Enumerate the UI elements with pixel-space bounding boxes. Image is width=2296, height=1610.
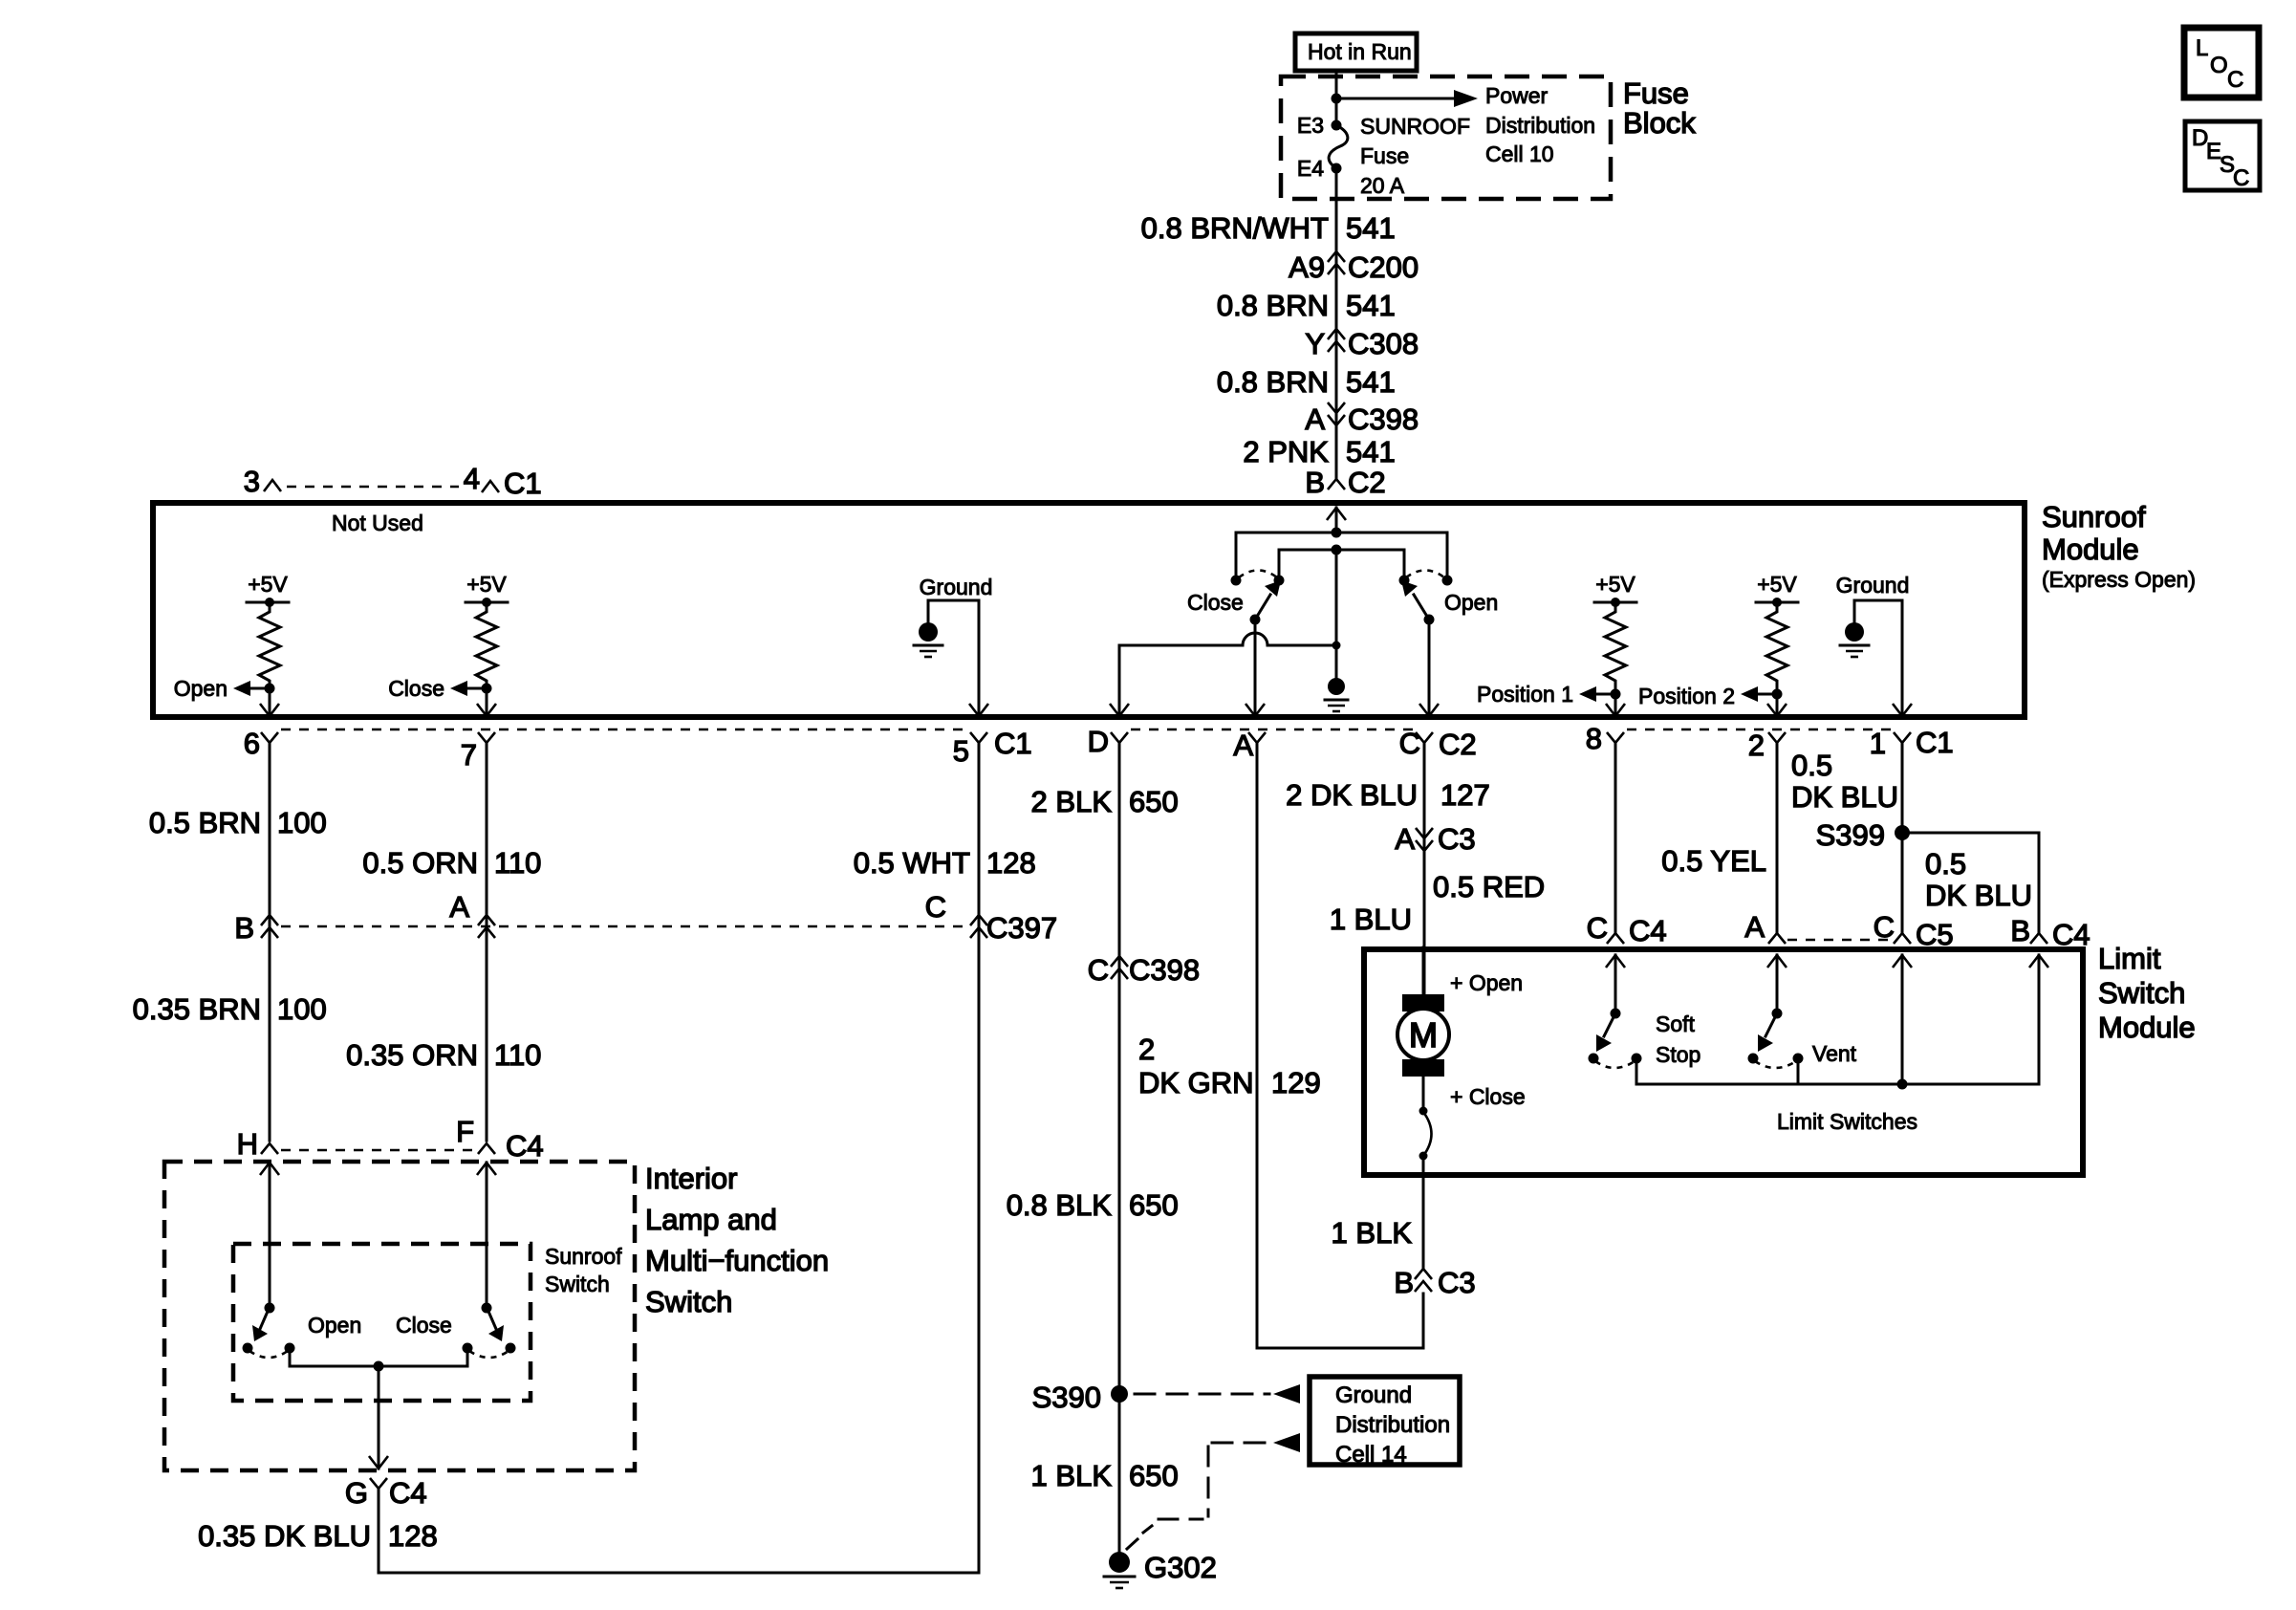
svg-text:E4: E4	[1297, 156, 1324, 181]
svg-text:0.8 BRN: 0.8 BRN	[1217, 365, 1329, 399]
wire pin A down (close feed to motor)	[1257, 743, 1423, 1348]
resistor R-close	[476, 602, 497, 687]
wire to pin 6	[260, 688, 279, 716]
connector C2 dashed line	[1131, 729, 1414, 731]
wire label 0.5 DK BLU (upper)	[1791, 749, 1898, 814]
svg-text:C5: C5	[1916, 918, 1954, 951]
connector C308 pin Y	[1305, 327, 1419, 360]
open contact travel arc	[249, 1351, 288, 1358]
svg-text:7: 7	[461, 738, 477, 772]
svg-text:Open: Open	[1444, 590, 1498, 615]
svg-text:Switch: Switch	[545, 1272, 610, 1296]
pin 4 (not used), connector C1	[464, 462, 542, 500]
svg-text:0.5: 0.5	[1791, 749, 1832, 782]
arrow to Power Distribution Cell 10	[1336, 83, 1595, 166]
svg-text:DK GRN: DK GRN	[1138, 1066, 1254, 1099]
svg-text:C4: C4	[506, 1129, 544, 1163]
wire pin 1 down	[1901, 743, 1904, 933]
wire to pin G	[369, 1366, 388, 1469]
connector C397 pin C	[925, 890, 1058, 945]
node relay ground junction	[1332, 642, 1341, 650]
svg-text:A9: A9	[1289, 250, 1325, 284]
node close-sense junction	[482, 684, 492, 694]
Limit Switch Module label	[2098, 942, 2196, 1044]
wire label 0.8 BRN/WHT 541	[1141, 211, 1396, 245]
wire ground to pin 5	[928, 600, 988, 716]
svg-text:0.8 BRN: 0.8 BRN	[1217, 289, 1329, 322]
connector C3 pin B	[1394, 1266, 1475, 1299]
svg-text:C: C	[1874, 910, 1895, 944]
svg-text:Interior: Interior	[645, 1162, 737, 1195]
svg-text:C1: C1	[504, 467, 542, 500]
switch contacts	[243, 1343, 253, 1354]
svg-text:Fuse: Fuse	[1360, 143, 1409, 168]
node switch output junction	[374, 1361, 384, 1372]
svg-text:Hot in Run: Hot in Run	[1308, 39, 1412, 64]
svg-text:0.35 DK BLU: 0.35 DK BLU	[198, 1519, 371, 1553]
Fuse Block dashed box	[1281, 76, 1611, 199]
svg-text:Open: Open	[174, 676, 227, 701]
Open output arrow	[174, 676, 270, 701]
svg-text:H: H	[237, 1127, 258, 1161]
resistor R-pos2	[1766, 602, 1787, 689]
svg-text:C398: C398	[1348, 402, 1419, 436]
+5V supply (open sense)	[247, 572, 289, 607]
svg-text:Cell 14: Cell 14	[1335, 1442, 1407, 1468]
pin 2 connector	[1748, 729, 1786, 762]
svg-text:+ Close: + Close	[1450, 1084, 1526, 1109]
pin E3	[1297, 113, 1342, 138]
connector C398 pin A	[1305, 402, 1419, 436]
vent switch blade	[1758, 1009, 1783, 1053]
wire pin C down (open feed to motor)	[1423, 743, 1426, 998]
wire C3-B to motor	[1422, 1175, 1425, 1269]
svg-text:0.5 BRN: 0.5 BRN	[149, 806, 261, 839]
connector C2 pin B	[1305, 466, 1385, 499]
svg-text:Open: Open	[308, 1313, 361, 1338]
contact close-NO	[1274, 576, 1285, 586]
svg-text:Stop: Stop	[1656, 1042, 1700, 1067]
svg-text:0.8 BLK: 0.8 BLK	[1007, 1188, 1113, 1222]
contact open-NO	[1399, 576, 1410, 586]
Interior Lamp switch label	[645, 1162, 829, 1318]
internal ground (right)	[1836, 573, 1910, 657]
wire to pin 2	[1767, 694, 1787, 716]
Limit Switch Module box	[1364, 949, 2083, 1175]
svg-text:Sunroof: Sunroof	[545, 1244, 622, 1269]
wire pin 8 down	[1614, 743, 1617, 933]
svg-text:Close: Close	[1187, 590, 1244, 615]
svg-text:C4: C4	[2052, 918, 2090, 951]
node relay feed junction 1	[1332, 528, 1342, 538]
pin 3 (not used)	[244, 465, 281, 498]
svg-text:M: M	[1409, 1015, 1438, 1055]
pin 5 connector C1	[953, 727, 1032, 768]
connector C3 pin A	[1395, 822, 1475, 856]
svg-text:+5V: +5V	[1595, 572, 1635, 597]
connector C398 pin C	[1088, 953, 1201, 987]
close switch entry arrow	[477, 1163, 496, 1308]
wire limit switch bus	[1636, 1058, 2039, 1084]
dashed line pins 3-4	[287, 486, 459, 489]
connector C1 dashed line (left)	[281, 729, 967, 731]
svg-text:A: A	[1305, 402, 1325, 436]
svg-text:Vent: Vent	[1812, 1041, 1857, 1066]
wire label 0.5 ORN 110	[362, 846, 541, 880]
svg-text:129: 129	[1271, 1066, 1321, 1099]
vent switch entry arrow	[1767, 955, 1787, 1013]
connector C397 dashed line	[281, 925, 967, 928]
node relay feed junction 2	[1332, 545, 1342, 555]
Sunroof Switch dashed box	[233, 1244, 531, 1401]
svg-text:541: 541	[1346, 211, 1396, 245]
wire C5-C limit sense	[1893, 955, 1912, 1084]
svg-text:Module: Module	[2098, 1011, 2196, 1044]
connector C4 pin B (limit)	[2010, 914, 2090, 951]
svg-text:2 DK BLU: 2 DK BLU	[1286, 778, 1418, 812]
svg-text:C308: C308	[1348, 327, 1419, 360]
svg-text:C1: C1	[994, 727, 1032, 760]
connector C4 pin C (limit)	[1587, 911, 1667, 947]
svg-text:0.5 WHT: 0.5 WHT	[854, 846, 970, 880]
wire limit bus to C4-B	[2029, 955, 2048, 1084]
svg-text:Module: Module	[2042, 533, 2139, 566]
svg-text:0.5: 0.5	[1925, 847, 1966, 881]
motor M	[1397, 994, 1449, 1077]
connector C397 pin A	[449, 890, 495, 938]
svg-text:C397: C397	[986, 911, 1057, 945]
svg-text:Fuse: Fuse	[1623, 76, 1689, 110]
resistor R-open	[259, 602, 280, 687]
connector C5 pin A	[1744, 910, 1786, 944]
pin 1 connector C1	[1870, 726, 1954, 760]
svg-text:C1: C1	[1916, 726, 1954, 759]
open contact travel arc	[1406, 571, 1444, 578]
svg-text:0.5 RED: 0.5 RED	[1433, 870, 1545, 903]
svg-text:Limit: Limit	[2098, 942, 2161, 975]
svg-text:110: 110	[494, 846, 541, 880]
connector C5 pin C	[1874, 910, 1954, 951]
svg-text:C3: C3	[1438, 1266, 1476, 1299]
wire pin 6 down	[269, 743, 271, 1141]
wire ground to pin 1	[1854, 600, 1912, 716]
relay feed entry arrow	[1327, 508, 1346, 534]
close relay blade	[1250, 580, 1282, 625]
pin E4	[1297, 156, 1342, 181]
svg-text:C200: C200	[1348, 250, 1419, 284]
Sunroof Module box	[153, 503, 2025, 717]
wire from Hot in Run into fuse block	[1335, 71, 1338, 125]
svg-text:B: B	[1305, 466, 1325, 499]
soft stop switch entry arrow	[1606, 955, 1625, 1013]
svg-text:0.8 BRN/WHT: 0.8 BRN/WHT	[1141, 211, 1329, 245]
internal ground (left)	[914, 575, 992, 657]
ground G302	[1104, 1539, 1217, 1588]
contact open-NC	[1442, 576, 1453, 586]
svg-text:E3: E3	[1297, 113, 1324, 138]
svg-text:541: 541	[1346, 289, 1396, 322]
svg-text:100: 100	[277, 992, 327, 1026]
svg-text:2 PNK: 2 PNK	[1243, 435, 1329, 468]
wire label 0.5 WHT 128	[854, 846, 1036, 880]
svg-text:20 A: 20 A	[1360, 173, 1405, 198]
+5V supply (close sense)	[466, 572, 508, 607]
wire pin 7 down	[486, 743, 488, 1141]
close switch blade	[482, 1303, 505, 1342]
wire open blade to pin C	[1419, 620, 1439, 716]
svg-text:DK BLU: DK BLU	[1791, 780, 1898, 814]
contact close-NC	[1231, 576, 1242, 586]
svg-text:Not Used: Not Used	[332, 511, 423, 535]
svg-text:Lamp and: Lamp and	[645, 1203, 777, 1236]
open switch blade	[252, 1303, 275, 1342]
svg-text:Position 1: Position 1	[1477, 682, 1573, 707]
svg-text:L: L	[2196, 35, 2208, 61]
vent travel arc	[1755, 1061, 1796, 1068]
svg-text:+5V: +5V	[1757, 572, 1797, 597]
vent contacts	[1748, 1054, 1759, 1064]
svg-text:Limit Switches: Limit Switches	[1777, 1109, 1917, 1134]
svg-text:Ground: Ground	[1335, 1382, 1412, 1408]
Sunroof Module label	[2042, 500, 2196, 592]
wire relay common to pin D	[1110, 633, 1336, 716]
svg-text:6: 6	[244, 727, 260, 760]
svg-text:1 BLK: 1 BLK	[1332, 1216, 1413, 1250]
wire label 0.8 BRN 541	[1217, 365, 1396, 399]
svg-text:Cell 10: Cell 10	[1485, 141, 1554, 166]
node limit bus junction	[1897, 1079, 1908, 1090]
wire bottom run to circuit 128	[379, 1572, 979, 1575]
motor thermal breaker	[1419, 1077, 1432, 1175]
fuse SUNROOF Fuse 20 A	[1329, 114, 1470, 198]
wire label 0.35 ORN 110	[346, 1038, 541, 1072]
LOC reference box	[2184, 28, 2259, 98]
close contact travel arc	[1239, 571, 1277, 578]
feed wire from fuse to sunroof module	[1335, 168, 1338, 478]
pin 8 connector	[1586, 722, 1624, 755]
svg-text:B: B	[234, 911, 254, 945]
wire switch common bus	[290, 1348, 467, 1366]
relay internal ground	[1325, 678, 1348, 711]
soft stop travel arc	[1595, 1061, 1635, 1068]
wire close blade to pin A with hop	[1245, 620, 1265, 716]
svg-text:O: O	[2210, 53, 2228, 78]
svg-text:G302: G302	[1144, 1551, 1217, 1584]
wire to pin 8	[1606, 694, 1625, 716]
svg-text:C2: C2	[1439, 728, 1477, 761]
motor M feed wire	[1422, 947, 1425, 998]
svg-text:8: 8	[1586, 722, 1602, 755]
svg-text:C4: C4	[1629, 914, 1667, 947]
svg-text:1 BLK: 1 BLK	[1031, 1459, 1113, 1492]
wire label 0.5 BRN 100	[149, 806, 327, 839]
svg-text:0.35 ORN: 0.35 ORN	[346, 1038, 478, 1072]
svg-text:C: C	[1587, 911, 1608, 945]
dashed reference to ground distribution	[1135, 1384, 1300, 1403]
svg-text:C: C	[1399, 727, 1420, 760]
wire pin 5 down	[978, 743, 981, 1573]
svg-text:110: 110	[494, 1038, 541, 1072]
wire to pin 7	[477, 688, 496, 716]
svg-text:C: C	[2227, 67, 2243, 93]
pin A connector	[1233, 729, 1266, 762]
connector C4 pin H	[237, 1127, 278, 1161]
svg-text:A: A	[1744, 910, 1765, 944]
wire relay center to ground	[1335, 550, 1338, 678]
svg-text:+5V: +5V	[466, 572, 507, 597]
svg-text:B: B	[1394, 1266, 1414, 1299]
+5V supply (position 2)	[1756, 572, 1798, 607]
svg-text:Switch: Switch	[2098, 976, 2185, 1010]
svg-text:C2: C2	[1348, 466, 1386, 499]
svg-text:4: 4	[464, 462, 480, 495]
svg-text:650: 650	[1129, 1459, 1179, 1492]
svg-text:(Express Open): (Express Open)	[2042, 567, 2196, 592]
svg-text:C: C	[2233, 165, 2249, 191]
soft stop contacts	[1589, 1054, 1599, 1064]
wire label 0.35 BRN 100	[133, 992, 327, 1026]
svg-text:C398: C398	[1129, 953, 1200, 987]
Soft Stop label	[1656, 1012, 1700, 1067]
wire S399 branch to limit B	[1902, 833, 2039, 933]
svg-text:100: 100	[277, 806, 327, 839]
svg-text:2 BLK: 2 BLK	[1031, 785, 1113, 818]
svg-text:1 BLU: 1 BLU	[1330, 903, 1412, 936]
Fuse Block label	[1623, 76, 1696, 140]
svg-text:127: 127	[1440, 778, 1490, 812]
Hot in Run box	[1295, 33, 1417, 71]
svg-text:1: 1	[1870, 727, 1886, 760]
svg-text:SUNROOF: SUNROOF	[1360, 114, 1470, 139]
svg-text:541: 541	[1346, 365, 1396, 399]
dashed line H-F	[281, 1149, 475, 1152]
wire label 1 BLK 650	[1031, 1459, 1179, 1492]
connector C1 dashed line (right)	[1627, 729, 1891, 731]
svg-text:A: A	[1395, 822, 1415, 856]
wire label 0.5 DK BLU (branch)	[1925, 847, 2032, 912]
wire G down	[378, 1489, 380, 1573]
Position 2 output arrow	[1638, 684, 1777, 708]
connector C5 dashed line	[1787, 939, 1892, 942]
Close output arrow	[388, 676, 487, 701]
svg-text:128: 128	[388, 1519, 438, 1553]
splice S399	[1816, 818, 1910, 852]
svg-text:S399: S399	[1816, 818, 1885, 852]
svg-text:Sunroof: Sunroof	[2042, 500, 2146, 533]
svg-text:Ground: Ground	[1836, 573, 1910, 598]
close contact travel arc	[469, 1351, 509, 1358]
svg-text:Y: Y	[1305, 327, 1325, 360]
svg-text:Position 2: Position 2	[1638, 684, 1735, 708]
svg-text:Distribution: Distribution	[1335, 1412, 1450, 1438]
wire label 0.8 BLK 650	[1007, 1188, 1179, 1222]
svg-text:G: G	[345, 1476, 368, 1510]
connector C200 pin A9	[1289, 250, 1419, 284]
wire label 0.35 DK BLU 128	[198, 1519, 438, 1553]
pin C connector C2	[1399, 727, 1477, 761]
DESC reference box	[2185, 121, 2260, 191]
wire pin 2 down	[1776, 743, 1779, 933]
svg-text:C3: C3	[1438, 822, 1476, 856]
svg-text:Switch: Switch	[645, 1285, 732, 1318]
svg-text:3: 3	[244, 465, 260, 498]
pin 7 connector	[461, 732, 495, 772]
svg-text:A: A	[449, 890, 469, 924]
svg-text:5: 5	[953, 734, 969, 768]
Interior Lamp and Multi-function Switch dashed box	[164, 1162, 635, 1470]
dashed reference from G302 to ground distribution	[1143, 1433, 1300, 1533]
wire label 0.8 BRN 541	[1217, 289, 1396, 322]
svg-text:0.35 BRN: 0.35 BRN	[133, 992, 261, 1026]
junction in fuse block	[1332, 94, 1342, 104]
svg-text:+5V: +5V	[248, 572, 288, 597]
svg-text:Power: Power	[1485, 83, 1549, 108]
svg-text:C4: C4	[389, 1476, 427, 1510]
connector C397 pin B	[234, 911, 278, 945]
svg-text:650: 650	[1129, 1188, 1179, 1222]
open relay blade	[1401, 580, 1435, 625]
svg-text:Close: Close	[396, 1313, 452, 1338]
svg-text:C: C	[1088, 953, 1109, 987]
wire label 2 BLK 650	[1031, 785, 1179, 818]
svg-text:D: D	[1088, 725, 1109, 758]
pin D connector	[1088, 725, 1128, 758]
wire label 2 PNK 541	[1243, 435, 1395, 468]
wire pin D down (ground path)	[1118, 743, 1121, 1560]
svg-text:Distribution: Distribution	[1485, 113, 1595, 138]
svg-text:Soft: Soft	[1656, 1012, 1696, 1036]
svg-text:Multi−function: Multi−function	[645, 1244, 829, 1277]
node position2 junction	[1772, 689, 1783, 700]
node open-sense junction	[265, 684, 275, 694]
Ground Distribution Cell 14 box	[1310, 1377, 1460, 1468]
splice S390	[1032, 1381, 1128, 1414]
svg-text:B: B	[2010, 914, 2030, 947]
svg-text:Block: Block	[1623, 106, 1696, 140]
soft stop switch blade	[1596, 1009, 1621, 1053]
node position1 junction	[1611, 689, 1621, 700]
svg-text:S390: S390	[1032, 1381, 1101, 1414]
+5V supply (position 1)	[1594, 572, 1636, 607]
svg-text:F: F	[456, 1115, 474, 1148]
wire label 2 DK BLU 127	[1286, 778, 1490, 812]
resistor R-pos1	[1605, 602, 1626, 689]
svg-text:541: 541	[1346, 435, 1396, 468]
wire label 2 DK GRN 129	[1138, 1033, 1321, 1099]
Sunroof Switch label	[545, 1244, 622, 1296]
pin 6 connector	[244, 727, 278, 760]
svg-text:2: 2	[1138, 1033, 1155, 1066]
connector C4 pin G	[345, 1476, 427, 1510]
wire inner contact rail	[1279, 550, 1404, 580]
svg-text:2: 2	[1748, 729, 1765, 762]
connector C4 pin F	[456, 1115, 544, 1163]
svg-text:+ Open: + Open	[1450, 970, 1523, 995]
open switch entry arrow	[260, 1163, 279, 1308]
svg-text:0.5 ORN: 0.5 ORN	[362, 846, 478, 880]
svg-text:DK BLU: DK BLU	[1925, 879, 2032, 912]
svg-text:128: 128	[986, 846, 1036, 880]
svg-text:C: C	[925, 890, 946, 924]
svg-text:0.5 YEL: 0.5 YEL	[1661, 844, 1766, 878]
Position 1 output arrow	[1477, 682, 1615, 707]
wire outer contact rail	[1236, 533, 1447, 580]
svg-text:650: 650	[1129, 785, 1179, 818]
svg-text:Ground: Ground	[920, 575, 993, 599]
svg-text:Close: Close	[388, 676, 444, 701]
